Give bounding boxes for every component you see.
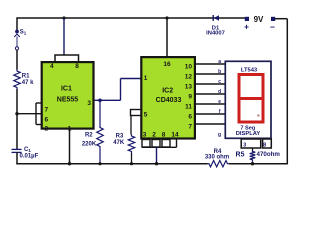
svg-text:7: 7 — [45, 107, 49, 114]
wire segment a IC2 pin10 to display — [196, 63, 225, 65]
resistor R3 — [128, 135, 134, 154]
svg-text:NE555: NE555 — [57, 96, 79, 103]
wire pin5 down to R3 — [130, 116, 132, 135]
wire R3 to bottom rail — [131, 153, 133, 164]
switch S1 lever — [14, 34, 20, 37]
counter IC2 CD4033 body — [141, 57, 195, 138]
svg-text:6: 6 — [188, 114, 192, 121]
wire bottom rail left of R4 — [16, 163, 207, 165]
svg-text:330 ohm: 330 ohm — [205, 155, 229, 161]
svg-text:R2: R2 — [85, 133, 93, 139]
svg-text:10: 10 — [185, 64, 193, 71]
svg-text:12: 12 — [185, 74, 193, 81]
wire R2 to bottom rail — [99, 148, 101, 164]
resistor R4 — [208, 161, 230, 167]
wire R5 to bottom rail — [252, 161, 254, 163]
wire IC2 bottom bus — [142, 146, 177, 148]
svg-text:47 k: 47 k — [22, 80, 34, 86]
svg-text:9V: 9V — [254, 15, 264, 24]
svg-text:14: 14 — [171, 132, 179, 139]
wire bottom rail right of R4 — [229, 163, 287, 165]
svg-text:1: 1 — [144, 75, 148, 82]
wire ladder IC1 inputs — [35, 103, 37, 125]
wire IC2 pin14 down — [176, 140, 178, 148]
svg-text:8: 8 — [263, 143, 266, 149]
svg-text:8: 8 — [162, 132, 166, 139]
seven segment digit lower half — [239, 99, 263, 123]
svg-text:b: b — [218, 69, 221, 75]
pin IC2 pin3 stub — [142, 140, 150, 148]
switch S1 bottom contact — [15, 47, 18, 50]
svg-text:LT543: LT543 — [241, 67, 258, 73]
svg-text:3: 3 — [243, 142, 246, 148]
pin IC2 pin2 stub — [152, 140, 160, 148]
svg-text:d: d — [218, 89, 221, 95]
svg-text:CD4033: CD4033 — [156, 97, 182, 104]
wire IC2 pin16 supply drop — [166, 18, 168, 56]
node IC2 ground junction — [155, 162, 158, 165]
node left rail junction to IC1 inputs — [15, 112, 18, 115]
pin display pin8 stub — [263, 139, 272, 148]
bracket IC1 pins 4-8 — [55, 55, 79, 62]
wire left rail S1 to R1 — [16, 50, 18, 70]
seven segment digit upper half — [239, 75, 263, 99]
svg-text:7: 7 — [188, 124, 192, 131]
svg-text:13: 13 — [185, 84, 193, 91]
node R2 ground junction — [98, 162, 101, 165]
resistor R1 — [14, 70, 20, 90]
svg-text:3: 3 — [87, 100, 91, 107]
wire left rail C1 to bottom — [16, 152, 18, 164]
resistor R2 — [97, 126, 103, 148]
svg-text:C1: C1 — [24, 147, 31, 153]
svg-text:−: − — [270, 22, 275, 32]
node pin1 ground junction — [68, 162, 71, 165]
svg-text:R3: R3 — [116, 134, 124, 140]
svg-text:IC1: IC1 — [61, 86, 72, 93]
wire display pins to R5 — [252, 149, 254, 151]
wire IC1 supply drop — [63, 18, 65, 55]
svg-text:e: e — [218, 99, 221, 105]
capacitor C1 — [12, 148, 22, 150]
resistor R5 — [250, 150, 256, 161]
wire segment d IC2 pin9 to display — [196, 93, 225, 95]
node top rail IC2 pin16 junction — [165, 16, 168, 19]
wire IC2 ground drop — [156, 147, 158, 163]
svg-text:IC2: IC2 — [162, 88, 173, 95]
svg-text:220K: 220K — [82, 141, 97, 147]
svg-text:+: + — [244, 21, 249, 31]
wire segment e IC2 pin11 to display — [196, 103, 225, 105]
wire right rail — [286, 19, 288, 165]
battery B1 negative terminal — [271, 17, 274, 20]
node R3 ground junction — [130, 162, 133, 165]
pin IC2 pin8 stub — [162, 140, 170, 148]
diode D1 — [214, 15, 219, 20]
svg-text:9: 9 — [188, 94, 192, 101]
display decimal point — [257, 115, 259, 117]
svg-text:S1: S1 — [20, 30, 27, 36]
wire pin3 down to R2 — [99, 100, 101, 126]
svg-text:0.01µF: 0.01µF — [20, 154, 39, 160]
node top rail IC1 supply junction — [62, 16, 65, 19]
svg-text:6: 6 — [45, 117, 49, 124]
pin IC2 pin5 stub — [131, 110, 142, 116]
wire segment f IC2 pin6 to display — [196, 113, 225, 115]
svg-text:2: 2 — [152, 132, 156, 139]
svg-text:2: 2 — [45, 126, 49, 133]
display DS1 LT543 body — [225, 61, 271, 138]
wire battery minus to right rail — [275, 18, 288, 20]
wire left rail to IC1 inputs — [17, 113, 36, 115]
svg-text:c: c — [218, 79, 221, 85]
switch S1 top contact — [15, 30, 19, 34]
node pin3 R2 junction — [98, 99, 102, 103]
svg-text:IN4007: IN4007 — [206, 30, 225, 36]
svg-text:16: 16 — [163, 61, 171, 68]
svg-text:R1: R1 — [22, 73, 30, 79]
wire left rail R1 to C1 — [16, 89, 18, 149]
node R5 ground junction — [251, 162, 254, 165]
svg-text:5: 5 — [144, 111, 148, 118]
svg-text:47K: 47K — [113, 140, 125, 146]
wire to IC2 pin1 — [121, 78, 141, 80]
svg-text:8: 8 — [75, 63, 79, 70]
svg-text:DISPLAY: DISPLAY — [236, 131, 261, 137]
battery B1 positive terminal — [245, 17, 248, 20]
wire segment g IC2 pin7 to display — [196, 123, 225, 125]
wire IC1 pin3 to R2 junction — [95, 99, 121, 101]
svg-text:a: a — [218, 59, 221, 65]
wire segment b IC2 pin12 to display — [196, 73, 225, 75]
svg-text:4: 4 — [50, 63, 54, 70]
pin display pin3 stub — [241, 139, 261, 148]
wire top rail — [17, 17, 245, 19]
svg-text:3: 3 — [143, 132, 147, 139]
wire left rail top segment — [16, 17, 18, 30]
wire segment c IC2 pin13 to display — [196, 83, 225, 85]
wire R2 junction up to IC2 pin1 level — [120, 79, 122, 101]
svg-text:11: 11 — [185, 104, 192, 111]
svg-text:g: g — [218, 132, 221, 138]
wire IC1 pin1 to bottom rail — [69, 129, 71, 163]
svg-text:R5: R5 — [236, 151, 245, 158]
timer IC1 NE555 body — [42, 62, 94, 129]
svg-text:470ohm: 470ohm — [257, 151, 281, 158]
